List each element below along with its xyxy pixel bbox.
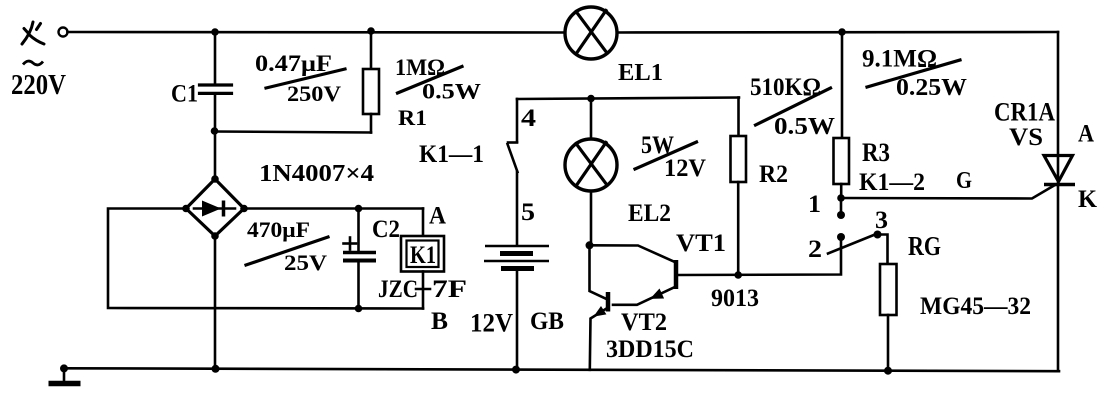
wire switch to battery: [516, 172, 519, 246]
wire top rail left: [68, 31, 567, 34]
switch K1-1 blade: [508, 141, 517, 144]
wire contact stub: [840, 198, 843, 215]
svg-text:0.47μF: 0.47μF: [255, 51, 332, 76]
svg-text:0.5W: 0.5W: [422, 79, 481, 104]
wire top rail right: [617, 31, 1059, 34]
wire bridge right to relay top: [244, 207, 423, 210]
svg-text:K1—2: K1—2: [859, 169, 925, 196]
wire K1-1 rail: [517, 98, 739, 100]
wire contact 3 to RG: [878, 235, 888, 265]
svg-text:R3: R3: [862, 138, 890, 167]
svg-text:0.5W: 0.5W: [774, 114, 835, 140]
node top rail / C1 branch: [211, 28, 219, 36]
wire R3 top: [841, 32, 844, 138]
VT2 emitter: [590, 308, 608, 370]
bridge rectifier diamond: [186, 179, 244, 236]
resistor R2: [731, 136, 747, 182]
node bottom rail / bridge: [212, 365, 220, 373]
svg-text:A: A: [1078, 121, 1094, 148]
svg-text:JZC: JZC: [378, 276, 418, 303]
terminal (live wire input): [59, 28, 68, 37]
svg-text:C1: C1: [171, 81, 198, 108]
svg-text:G: G: [956, 168, 972, 194]
relay coil K1 box: [401, 236, 444, 272]
svg-text:25V: 25V: [284, 250, 327, 275]
svg-text:RG: RG: [908, 231, 941, 261]
wire RG bottom: [887, 315, 890, 371]
wire VT1 base line: [677, 240, 841, 275]
wire C1 lower: [214, 94, 217, 179]
node C2 top: [355, 205, 363, 213]
svg-text:3: 3: [875, 207, 888, 234]
resistor R1: [363, 69, 379, 114]
node top rail / R1 branch: [367, 27, 375, 35]
node C1 bottom: [211, 127, 219, 135]
wire VT2 collector: [590, 245, 607, 299]
wire EL2 bottom: [590, 191, 593, 245]
wire gate line: [841, 186, 1054, 199]
svg-text:VT1: VT1: [676, 230, 726, 257]
svg-text:MG45—32: MG45—32: [920, 293, 1031, 320]
svg-text:0.25W: 0.25W: [896, 75, 967, 101]
svg-text:B: B: [431, 308, 448, 335]
battery GB: [485, 245, 549, 247]
node top rail / R3 branch: [838, 28, 846, 36]
thyristor VS: [1044, 156, 1073, 182]
wire bottom rail: [64, 368, 1059, 371]
svg-text:9013: 9013: [711, 285, 759, 312]
wire relay K1 top lead: [422, 209, 425, 237]
svg-text:EL2: EL2: [628, 200, 671, 227]
svg-text:K: K: [1078, 186, 1098, 213]
transistor VT1 bar: [674, 260, 679, 289]
ground: [63, 369, 66, 384]
capacitor C1: [200, 83, 232, 86]
diode inside bridge: [194, 207, 235, 210]
svg-text:1N4007×4: 1N4007×4: [259, 161, 374, 187]
wire R1 bottom: [370, 114, 373, 133]
svg-text:C2: C2: [372, 216, 400, 243]
svg-text:2: 2: [808, 236, 822, 263]
svg-text:K1—1: K1—1: [419, 141, 484, 168]
node G junction: [837, 194, 845, 202]
label 火 (drawn strokes): [22, 22, 44, 44]
contact 3: [874, 231, 882, 239]
svg-text:470μF: 470μF: [247, 217, 310, 242]
VT1 emitter: [613, 287, 676, 305]
node bottom rail / battery: [512, 366, 520, 374]
wire EL2 top: [590, 99, 593, 140]
wire C1 to R1 bottom: [215, 132, 372, 133]
svg-text:7F: 7F: [432, 276, 467, 303]
bridge vertex nodes: [211, 175, 219, 183]
wire R2 bottom: [737, 182, 740, 275]
svg-text:R2: R2: [759, 161, 788, 188]
svg-text:VS: VS: [1009, 124, 1043, 151]
node R2 / base line: [734, 271, 742, 279]
svg-text:4: 4: [521, 105, 537, 132]
svg-text:220V: 220V: [11, 70, 66, 101]
contact 2: [837, 233, 845, 241]
wire bridge left loop: [108, 209, 423, 309]
svg-text:250V: 250V: [287, 81, 341, 106]
wire C1 branch upper: [214, 32, 217, 84]
resistor RG: [880, 264, 897, 315]
capacitor C2: [357, 209, 360, 252]
wire right side vertical upper: [1057, 32, 1060, 185]
lamp EL2: [565, 139, 617, 191]
node EL2 top: [587, 95, 595, 103]
wire right side vertical lower: [1057, 185, 1060, 372]
lamp EL1: [565, 7, 617, 59]
svg-text:3DD15C: 3DD15C: [606, 336, 694, 363]
node collectors: [586, 241, 594, 249]
svg-text:VT2: VT2: [621, 309, 667, 336]
wire bridge bottom to ground rail: [214, 236, 217, 369]
node bottom rail / RG: [884, 367, 892, 375]
wire battery to bottom rail: [516, 269, 519, 370]
svg-text:GB: GB: [530, 308, 564, 335]
node C2 bottom: [355, 305, 363, 313]
label ~: [23, 61, 43, 65]
switch K1-2 blade: [828, 234, 878, 254]
transistor VT2 bar: [606, 292, 611, 312]
contact 1: [837, 211, 845, 219]
svg-text:CR1A: CR1A: [994, 98, 1055, 127]
wire relay K1 bottom lead: [422, 272, 425, 309]
svg-text:A: A: [429, 203, 446, 230]
wire R3 bottom: [840, 184, 843, 198]
wire VT1 collector: [590, 245, 677, 262]
svg-text:K1: K1: [410, 242, 436, 269]
svg-text:12V: 12V: [664, 155, 706, 182]
plus sign of C2: [344, 242, 357, 245]
svg-text:1: 1: [808, 191, 821, 218]
svg-text:12V: 12V: [470, 309, 513, 338]
svg-text:R1: R1: [398, 105, 427, 130]
svg-text:EL1: EL1: [618, 60, 663, 86]
resistor R3: [834, 138, 850, 184]
wire R1 top: [370, 32, 373, 69]
wire R2 top: [737, 98, 740, 137]
svg-text:5: 5: [521, 199, 535, 226]
